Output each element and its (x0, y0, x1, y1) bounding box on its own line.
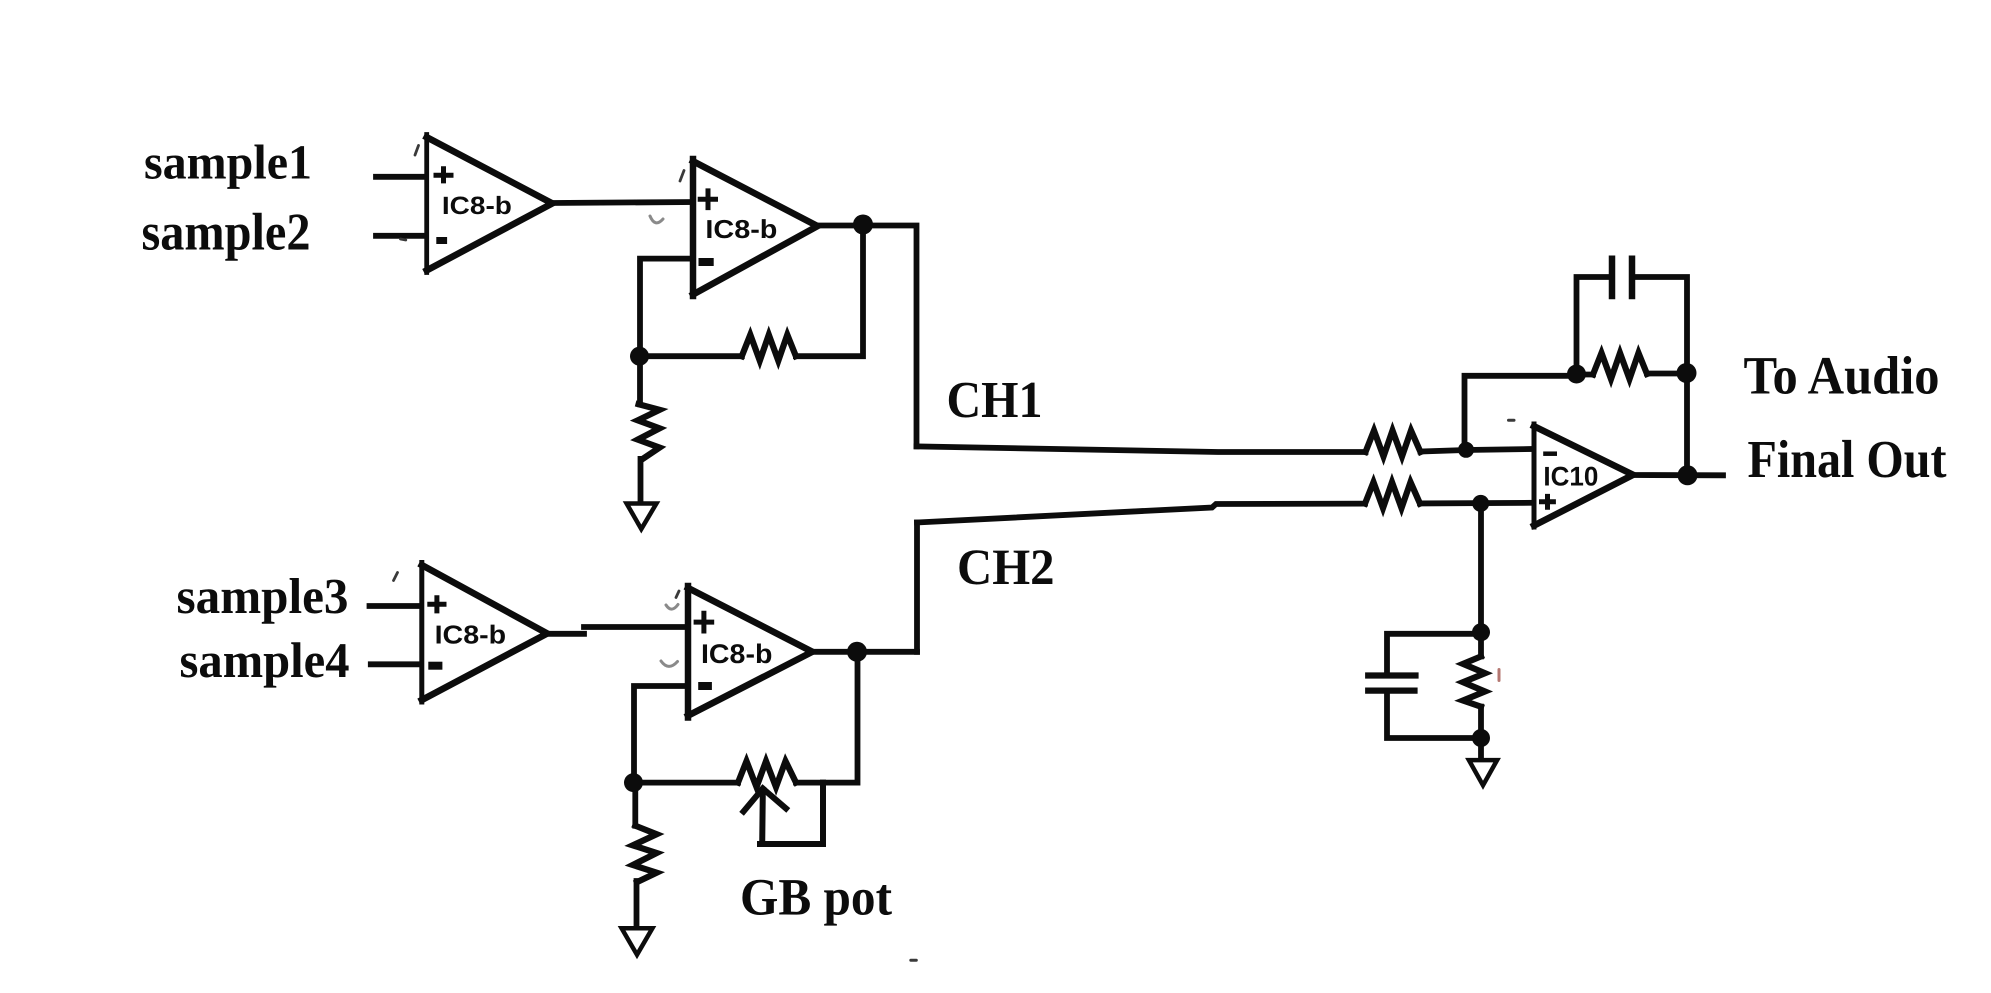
svg-text:Final Out: Final Out (1748, 429, 1947, 489)
svg-text:To Audio: To Audio (1744, 346, 1940, 406)
svg-text:CH2: CH2 (957, 540, 1055, 596)
svg-text:IC8-b: IC8-b (435, 620, 507, 650)
svg-text:IC8-b: IC8-b (705, 214, 777, 244)
svg-text:IC10: IC10 (1543, 461, 1598, 491)
svg-text:sample1: sample1 (144, 135, 312, 190)
svg-text:sample4: sample4 (180, 632, 350, 688)
svg-text:sample3: sample3 (177, 568, 349, 624)
svg-text:IC8-b: IC8-b (442, 192, 512, 220)
svg-text:IC8-b: IC8-b (701, 639, 772, 669)
svg-text:CH1: CH1 (947, 372, 1043, 429)
svg-text:GB pot: GB pot (740, 869, 892, 927)
svg-text:sample2: sample2 (142, 203, 311, 261)
